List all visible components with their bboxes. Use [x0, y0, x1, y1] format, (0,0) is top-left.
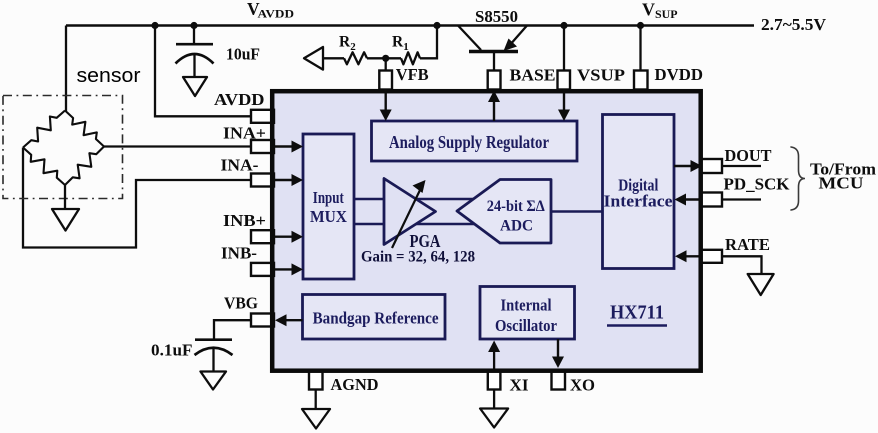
svg-text:RATE: RATE — [725, 235, 770, 254]
arrow : INA+ into MUX — [274, 145, 295, 147]
block : PGA amplifier triangle — [384, 179, 436, 245]
svg-text:V: V — [642, 0, 655, 20]
pin VBG — [251, 314, 274, 327]
svg-text:ADC: ADC — [500, 218, 533, 235]
resistor bridge bottom-left — [23, 148, 65, 186]
wire : rail to AVDD pin — [155, 26, 252, 117]
arrow : PD_SCK into Digital Interface — [683, 198, 701, 200]
svg-text:VSUP: VSUP — [577, 66, 625, 85]
transistor Q1 emitter line with arrow — [509, 26, 527, 47]
pin VSUP — [558, 71, 571, 90]
wire : MUX to PGA/ADC lower signal line — [354, 223, 476, 225]
ground : below 10uF — [183, 77, 207, 96]
svg-text:INA-: INA- — [221, 156, 259, 175]
svg-text:VBG: VBG — [224, 294, 258, 313]
svg-text:INA+: INA+ — [223, 124, 266, 143]
svg-text:AVDD: AVDD — [258, 9, 295, 21]
ground : XI — [480, 409, 508, 428]
pin RATE — [701, 250, 723, 263]
svg-text:MUX: MUX — [310, 207, 348, 226]
svg-text:Interface: Interface — [604, 192, 673, 211]
wire : base to BASE pin — [493, 52, 495, 73]
wire : rail down to sensor bridge top — [65, 26, 67, 112]
svg-text:S8550: S8550 — [475, 7, 518, 26]
wire : bridge right node to INA+ pin — [104, 145, 252, 147]
svg-text:HX711: HX711 — [610, 302, 664, 324]
pin INB- — [251, 263, 274, 276]
svg-text:Oscillator: Oscillator — [495, 316, 557, 335]
brace to MCU — [791, 147, 805, 210]
wire : AGND to ground — [315, 390, 317, 410]
sensor dash-dot enclosure — [3, 96, 123, 199]
wire : VFB node down to VFB pin — [385, 58, 387, 72]
pin DVDD — [634, 71, 648, 90]
node arrow : open arrow left of R2 — [304, 47, 323, 70]
label HX711 underline — [607, 324, 667, 327]
wire : RATE pin to ground — [722, 256, 762, 274]
svg-text:DVDD: DVDD — [655, 65, 704, 84]
pin PD_SCK — [701, 193, 723, 207]
block : Bandgap Reference — [303, 295, 446, 340]
wire : bridge left node to INA- pin — [23, 148, 252, 248]
node junction dot — [560, 22, 567, 29]
wire : PD_SCK pin out — [722, 198, 761, 200]
arrow : RATE into Digital Interface — [683, 255, 701, 257]
op-amp U1 : IC border — [272, 91, 701, 371]
capacitor C1 10uF plates — [176, 43, 213, 46]
arrow : VSUP pin down into regulator — [563, 90, 565, 114]
node junction dot — [151, 22, 158, 29]
svg-text:AGND: AGND — [331, 375, 379, 394]
svg-text:Input: Input — [313, 188, 344, 207]
wire : VAVDD/VSUP top supply rail — [66, 24, 754, 27]
svg-text:VFB: VFB — [396, 65, 429, 84]
node junction dot — [637, 22, 644, 29]
arrow : INB- into MUX — [274, 268, 295, 270]
capacitor C2 0.1uF plates — [195, 338, 232, 341]
block : Digital Interface — [603, 115, 675, 269]
svg-text:INB+: INB+ — [223, 211, 266, 230]
pin XO — [552, 371, 566, 390]
wire : MUX to PGA/ADC upper signal line — [354, 198, 476, 200]
svg-text:SUP: SUP — [655, 9, 678, 21]
svg-text:2.7~5.5V: 2.7~5.5V — [761, 15, 827, 34]
svg-text:XI: XI — [510, 376, 529, 395]
block : Input MUX — [303, 134, 354, 279]
resistor R2 — [344, 52, 367, 64]
pin XI — [488, 371, 501, 390]
arrow : INA- into MUX — [274, 179, 295, 181]
pin AGND — [309, 371, 323, 390]
ground : AGND — [302, 409, 330, 429]
svg-text:PD_SCK: PD_SCK — [724, 175, 791, 194]
svg-text:BASE: BASE — [510, 66, 556, 85]
capacitor C1 10uF stem — [193, 26, 195, 45]
wire : rail to VSUP pin — [563, 26, 565, 73]
pin INB+ — [251, 230, 274, 243]
svg-text:Analog Supply Regulator: Analog Supply Regulator — [389, 132, 549, 152]
svg-text:Gain = 32, 64, 128: Gain = 32, 64, 128 — [361, 249, 475, 266]
op-amp U1 : HX711 IC body — [272, 91, 701, 371]
svg-text:DOUT: DOUT — [725, 146, 773, 165]
transistor Q1 collector line — [458, 26, 481, 51]
block : Analog Supply Regulator — [372, 121, 578, 161]
wire : arrow to R2 — [323, 57, 344, 59]
PGA gain arrow — [392, 188, 421, 248]
transistor Q1 S8550 base bar — [469, 50, 518, 54]
resistor bridge top-left — [23, 111, 65, 148]
node junction dot — [433, 22, 440, 29]
wire : R1 up to rail — [420, 26, 437, 59]
svg-text:24-bit ΣΔ: 24-bit ΣΔ — [487, 198, 545, 215]
svg-text:sensor: sensor — [77, 65, 141, 87]
ground : sensor bridge — [52, 209, 79, 231]
wire : DOUT pin out — [722, 165, 761, 167]
resistor R1 — [401, 52, 420, 64]
pin DOUT — [701, 159, 723, 173]
arrow : regulator up to BASE pin — [493, 99, 495, 121]
svg-text:MCU: MCU — [819, 174, 864, 193]
node junction dot — [382, 55, 389, 62]
wire : VBG pin to 0.1uF cap — [214, 320, 252, 339]
pin BASE — [488, 71, 501, 90]
svg-text:INB-: INB- — [221, 244, 257, 263]
svg-text:0.1uF: 0.1uF — [151, 341, 193, 360]
pin INA+ — [251, 140, 274, 153]
svg-text:10uF: 10uF — [226, 45, 260, 64]
svg-text:Bandgap Reference: Bandgap Reference — [313, 309, 439, 328]
arrow : XI up into oscillator — [488, 341, 500, 353]
arrow : Bandgap to VBG pin — [283, 319, 303, 321]
node junction dot — [190, 22, 197, 29]
arrow : Digital Interface to DOUT — [674, 165, 694, 167]
pin INA- — [251, 174, 274, 187]
arrow : VFB pin down into regulator — [385, 90, 387, 114]
svg-text:AVDD: AVDD — [214, 90, 265, 109]
arrow : INB+ into MUX — [274, 235, 295, 237]
pin AVDD — [251, 110, 274, 123]
svg-text:XO: XO — [570, 376, 595, 395]
block : 24-bit Sigma-Delta ADC hexagon — [457, 180, 551, 244]
ground : RATE — [748, 274, 774, 295]
wire : R2 to VFB node to R1 — [367, 57, 401, 59]
wire : ADC to Digital Interface — [551, 210, 603, 212]
wire : XI to external ground — [493, 345, 495, 409]
resistor bridge top-right — [65, 111, 104, 147]
wire : rail to DVDD pin — [639, 26, 641, 73]
pin VFB — [379, 71, 392, 90]
resistor bridge bottom-right — [65, 147, 104, 186]
block : Internal Oscillator — [480, 287, 575, 340]
svg-text:Internal: Internal — [501, 296, 552, 315]
wire : bridge bottom to ground — [64, 185, 66, 209]
ground : below 0.1uF — [201, 372, 227, 390]
arrow : oscillator down to XO — [557, 339, 559, 360]
